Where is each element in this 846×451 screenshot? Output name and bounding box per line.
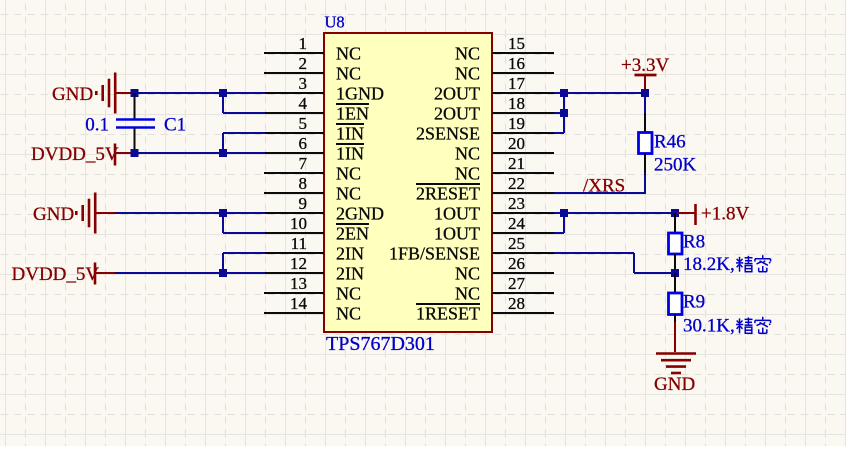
wire branch up to pin 11 [222, 253, 224, 273]
pin 17 (2OUT) right wire [492, 92, 554, 94]
svg-text:NC: NC [336, 284, 361, 304]
svg-text:1OUT: 1OUT [434, 224, 480, 244]
wire GND stub to node [115, 92, 135, 94]
pin 16 (NC) right wire [492, 72, 554, 74]
svg-text:NC: NC [336, 304, 361, 324]
resistor R9 body [669, 293, 683, 315]
svg-text:9: 9 [299, 194, 308, 213]
capacitor C1 top lead [134, 93, 136, 119]
svg-text:8: 8 [299, 174, 308, 193]
svg-text:C1: C1 [164, 115, 186, 136]
pin 19 (2SENSE) right wire [492, 132, 554, 134]
junction branch pin5 [219, 149, 227, 157]
pin 9 (2GND) left wire [264, 212, 324, 214]
overline for 1IN [336, 123, 364, 125]
svg-text:NC: NC [455, 144, 480, 164]
svg-text:1IN: 1IN [336, 144, 364, 164]
svg-text:NC: NC [455, 44, 480, 64]
junction at C1 top [131, 89, 139, 97]
value text 18.2K precision CJK [736, 256, 753, 272]
pin 7 (NC) left wire [264, 172, 324, 174]
junction branch pin11 [219, 269, 227, 277]
power port +1.8V stub [677, 212, 695, 214]
svg-text:11: 11 [291, 234, 307, 253]
resistor R9 bottom pin [674, 315, 676, 323]
svg-text:1IN: 1IN [336, 124, 364, 144]
DVDD_5V bar (upper) [114, 144, 117, 166]
svg-text:4: 4 [299, 94, 308, 113]
IC U8 body (TPS767D301 dual regulator) [324, 33, 492, 332]
svg-text:2OUT: 2OUT [434, 84, 480, 104]
resistor R9 top pin [674, 273, 676, 293]
wire net row pin12 [115, 272, 265, 274]
junction pin23 column [560, 209, 568, 217]
svg-text:TPS767D301: TPS767D301 [326, 333, 435, 355]
wire net 3.3V row pin17 [554, 92, 646, 94]
svg-text:24: 24 [508, 214, 526, 233]
pin 1 (NC) left wire [264, 52, 324, 54]
pin 25 (1FB/SENSE) right wire [492, 252, 554, 254]
svg-text:+1.8V: +1.8V [701, 204, 749, 225]
svg-text:/XRS: /XRS [583, 176, 625, 197]
wire DVDD stub upper [116, 152, 135, 154]
svg-text:2SENSE: 2SENSE [416, 124, 480, 144]
svg-text:GND: GND [33, 204, 74, 225]
wire net row pin3: node to pin 3 [135, 92, 265, 94]
svg-text:23: 23 [508, 194, 525, 213]
svg-text:NC: NC [336, 184, 361, 204]
pin 14 (NC) left wire [264, 312, 324, 314]
+3.3V bar [635, 74, 657, 77]
capacitor C1 bottom lead [134, 128, 136, 153]
svg-text:DVDD_5V: DVDD_5V [12, 264, 100, 285]
svg-text:26: 26 [508, 254, 525, 273]
pin 18 (2OUT) right wire [492, 112, 554, 114]
svg-text:30.1K,: 30.1K, [683, 316, 735, 337]
svg-text:2IN: 2IN [336, 264, 364, 284]
junction branch pin4 [219, 89, 227, 97]
svg-text:2RESET: 2RESET [416, 184, 480, 204]
pin 5 (1IN) left wire [264, 132, 324, 134]
svg-text:16: 16 [508, 54, 525, 73]
svg-text:NC: NC [336, 164, 361, 184]
earth ground symbol [656, 352, 696, 355]
svg-text:NC: NC [455, 164, 480, 184]
resistor R8 body [669, 233, 683, 254]
value text 30.1K precision CJK [736, 317, 753, 333]
svg-text:0.1: 0.1 [85, 115, 109, 136]
wire net /XRS row pin22 [554, 192, 646, 194]
svg-text:2: 2 [299, 54, 308, 73]
resistor R46 body [639, 133, 653, 154]
overline for 2EN [336, 223, 369, 225]
overline for 1EN [336, 103, 369, 105]
+1.8V bar [694, 204, 697, 225]
svg-text:1EN: 1EN [336, 104, 369, 124]
svg-text:22: 22 [508, 174, 525, 193]
svg-text:3: 3 [299, 74, 308, 93]
pin 12 (2IN) left wire [264, 272, 324, 274]
junction at R8 top [671, 209, 679, 217]
svg-text:2IN: 2IN [336, 244, 364, 264]
svg-text:GND: GND [654, 374, 695, 395]
svg-text:19: 19 [508, 114, 525, 133]
svg-text:6: 6 [299, 134, 308, 153]
pin 21 (NC) right wire [492, 172, 554, 174]
svg-text:1RESET: 1RESET [416, 304, 480, 324]
svg-text:U8: U8 [325, 13, 345, 32]
pin 28 (1RESET) right wire [492, 312, 554, 314]
svg-text:NC: NC [455, 284, 480, 304]
junction pin18 [560, 109, 568, 117]
svg-text:25: 25 [508, 234, 525, 253]
svg-text:1: 1 [299, 34, 308, 53]
pin 6 (1IN) left wire [264, 152, 324, 154]
svg-text:1OUT: 1OUT [434, 204, 480, 224]
svg-text:18: 18 [508, 94, 525, 113]
wire net 1.8V row pin23 [554, 212, 676, 214]
capacitor C1 plates [116, 118, 155, 121]
svg-text:NC: NC [336, 64, 361, 84]
pin 11 (2IN) left wire [264, 252, 324, 254]
svg-text:17: 17 [508, 74, 526, 93]
overline for 2RESET [416, 183, 480, 185]
svg-text:GND: GND [52, 84, 93, 105]
wire branch up to pin 5 [222, 133, 224, 153]
power ground symbol GND (top left) [114, 73, 117, 114]
wire to earth ground [674, 322, 676, 352]
svg-text:27: 27 [508, 274, 526, 293]
pin 13 (NC) left wire [264, 292, 324, 294]
pin 20 (NC) right wire [492, 152, 554, 154]
svg-text:14: 14 [290, 294, 308, 313]
resistor R46 bottom pin [644, 154, 646, 174]
pin 8 (NC) left wire [264, 192, 324, 194]
wire net row pin9 [115, 212, 265, 214]
svg-text:2OUT: 2OUT [434, 104, 480, 124]
svg-text:7: 7 [299, 154, 308, 173]
pin 23 (1OUT) right wire [492, 212, 554, 214]
wire stub pin18 [554, 112, 564, 114]
pin 26 (NC) right wire [492, 272, 554, 274]
svg-text:2GND: 2GND [336, 204, 384, 224]
wire R46 bottom to /XRS row [644, 173, 646, 194]
+3.3V stub [644, 76, 646, 91]
pin 2 (NC) left wire [264, 72, 324, 74]
wire branch down to pin 4 [222, 93, 224, 113]
wire branch down to pin 24 [563, 213, 565, 233]
svg-text:13: 13 [290, 274, 307, 293]
junction at C1 bottom [131, 149, 139, 157]
wire net row pin6 [135, 152, 265, 154]
svg-text:NC: NC [336, 44, 361, 64]
svg-text:28: 28 [508, 294, 525, 313]
resistor R8 top pin [674, 213, 676, 233]
pin 3 (1GND) left wire [264, 92, 324, 94]
pin 10 (2EN) left wire [264, 232, 324, 234]
junction at +3.3V / R46 [641, 89, 649, 97]
junction pin17 column [560, 89, 568, 97]
wire R46 top [644, 93, 646, 113]
svg-text:NC: NC [455, 264, 480, 284]
svg-text:18.2K,: 18.2K, [683, 254, 735, 275]
wire net FB row pin25 [554, 252, 634, 254]
wire stub pin19 [554, 132, 564, 134]
pin 27 (NC) right wire [492, 292, 554, 294]
svg-text:NC: NC [455, 64, 480, 84]
power ground symbol GND (lower left) [94, 193, 97, 234]
svg-text:2EN: 2EN [336, 224, 369, 244]
svg-text:21: 21 [508, 154, 525, 173]
resistor R46 top pin [644, 113, 646, 133]
svg-text:1FB/SENSE: 1FB/SENSE [389, 244, 480, 264]
overline for 1IN [336, 143, 364, 145]
svg-text:10: 10 [290, 214, 307, 233]
wire branch down to pin 10 [222, 213, 224, 233]
wire DVDD stub lower [96, 272, 115, 274]
svg-text:5: 5 [299, 114, 308, 133]
resistor R8 bottom pin [674, 254, 676, 273]
pin 22 (2RESET) right wire [492, 192, 554, 194]
junction R8/R9 divider [671, 269, 679, 277]
svg-text:R46: R46 [654, 132, 686, 153]
svg-text:R8: R8 [683, 232, 705, 253]
wire vertical pins 17-19 tie [563, 93, 565, 133]
svg-text:250K: 250K [654, 155, 697, 176]
pin 4 (1EN) left wire [264, 112, 324, 114]
svg-text:20: 20 [508, 134, 525, 153]
svg-text:12: 12 [290, 254, 307, 273]
overline for 1RESET [416, 303, 480, 305]
svg-text:15: 15 [508, 34, 525, 53]
svg-text:+3.3V: +3.3V [621, 55, 669, 76]
pin 24 (1OUT) right wire [492, 232, 554, 234]
pin 15 (NC) right wire [492, 52, 554, 54]
wire GND2 stub [95, 212, 115, 214]
junction branch pin10 [219, 209, 227, 217]
svg-text:1GND: 1GND [336, 84, 384, 104]
DVDD_5V bar (lower) [94, 263, 97, 285]
svg-text:R9: R9 [683, 292, 705, 313]
svg-text:DVDD_5V: DVDD_5V [31, 144, 119, 165]
